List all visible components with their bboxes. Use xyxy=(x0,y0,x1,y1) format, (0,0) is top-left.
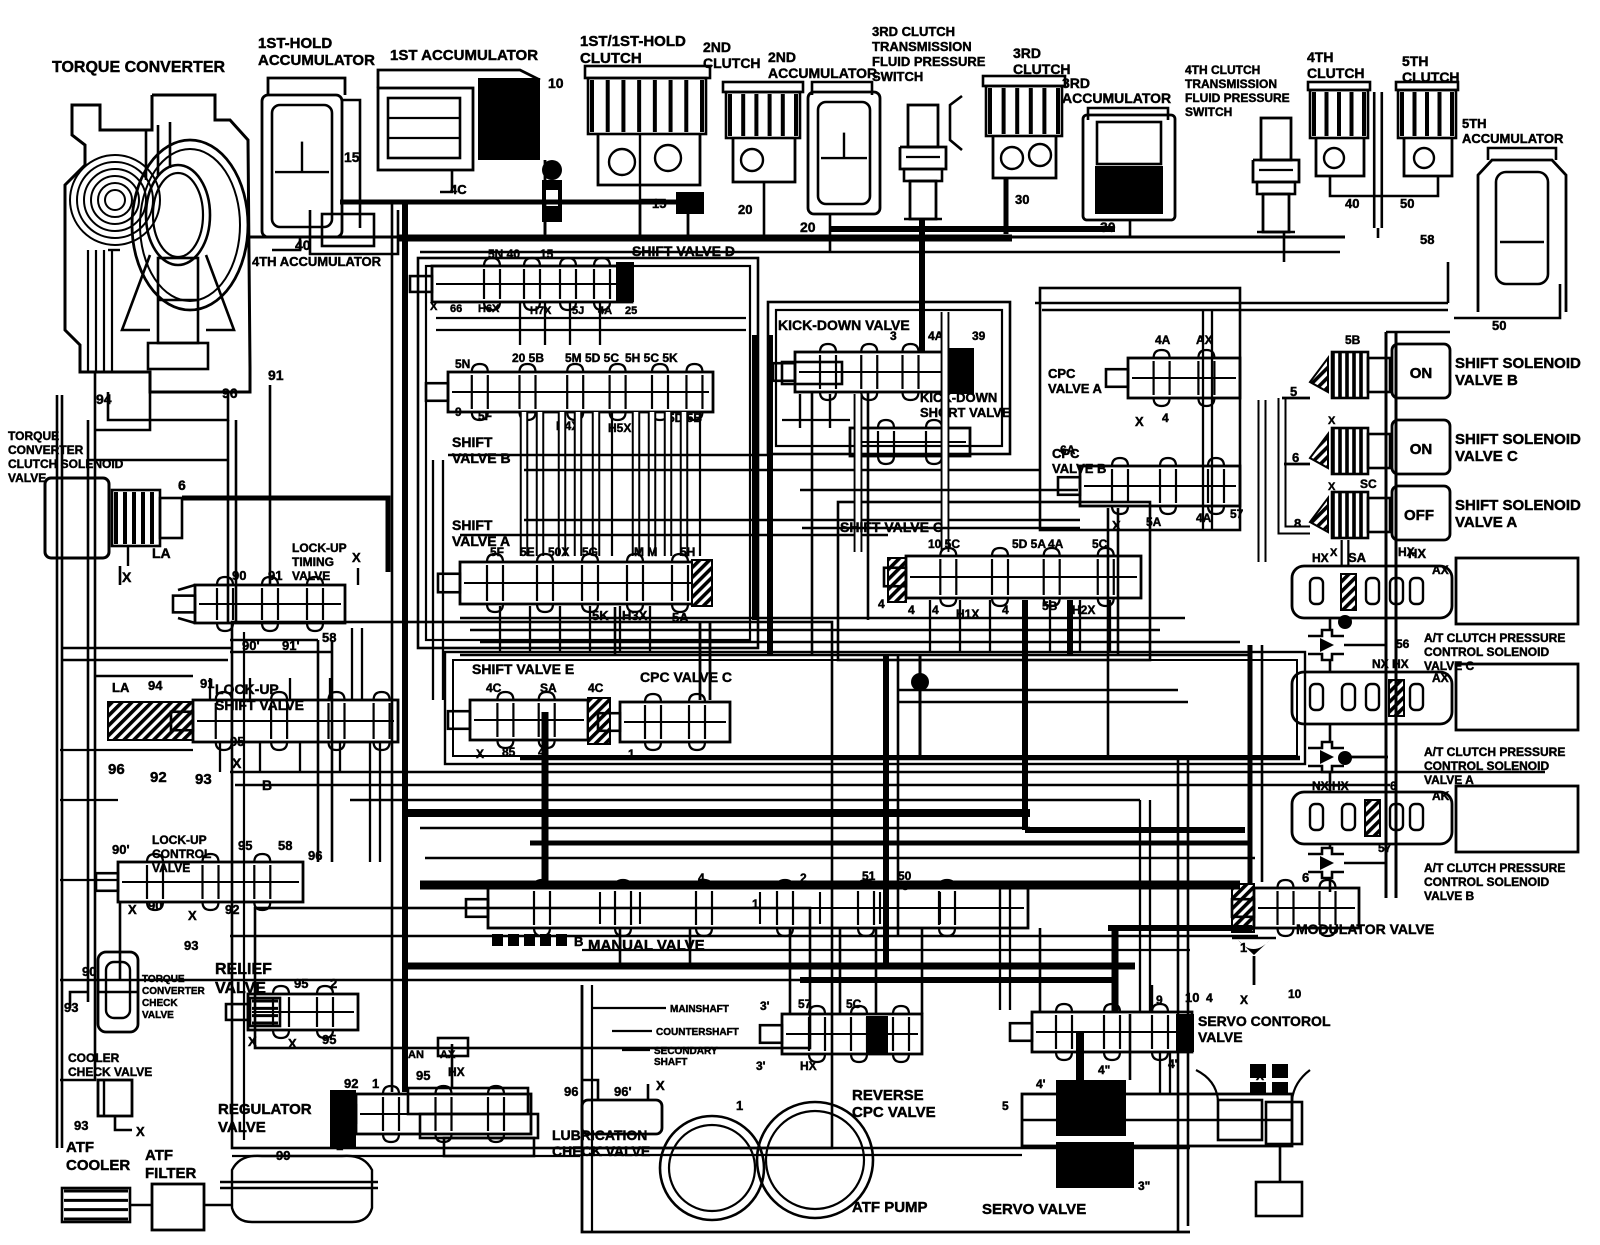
svg-text:20: 20 xyxy=(738,202,752,217)
svg-text:94: 94 xyxy=(148,678,163,693)
svg-text:SHIFT VALVE E: SHIFT VALVE E xyxy=(472,661,574,677)
svg-text:ATF: ATF xyxy=(66,1139,94,1156)
svg-text:TRANSMISSION: TRANSMISSION xyxy=(1185,77,1277,91)
svg-text:4TH CLUTCH: 4TH CLUTCH xyxy=(1185,63,1260,77)
svg-text:5: 5 xyxy=(1002,1099,1009,1113)
svg-text:SHIFT SOLENOID: SHIFT SOLENOID xyxy=(1455,355,1581,372)
svg-text:2: 2 xyxy=(330,976,337,991)
svg-text:X: X xyxy=(476,747,484,761)
svg-text:4C: 4C xyxy=(450,182,467,197)
svg-text:CONTROL SOLENOID: CONTROL SOLENOID xyxy=(1424,875,1549,889)
svg-text:HX: HX xyxy=(800,1059,817,1073)
svg-text:93: 93 xyxy=(74,1118,88,1133)
svg-text:VALVE: VALVE xyxy=(292,569,330,583)
svg-text:ON: ON xyxy=(1410,441,1433,458)
svg-text:39: 39 xyxy=(972,329,986,343)
svg-text:VALVE B: VALVE B xyxy=(1424,889,1475,903)
svg-text:SHIFT: SHIFT xyxy=(452,434,493,450)
svg-text:5C: 5C xyxy=(846,997,862,1011)
svg-text:AX: AX xyxy=(440,1049,456,1061)
svg-text:AN: AN xyxy=(408,1049,424,1061)
svg-text:SHIFT: SHIFT xyxy=(452,517,493,533)
svg-text:M M: M M xyxy=(634,545,657,559)
svg-text:4: 4 xyxy=(932,603,939,617)
svg-text:95: 95 xyxy=(294,976,308,991)
svg-text:1ST ACCUMULATOR: 1ST ACCUMULATOR xyxy=(390,47,538,64)
svg-text:CHECK VALVE: CHECK VALVE xyxy=(552,1143,650,1159)
svg-text:96: 96 xyxy=(222,385,238,401)
svg-text:94: 94 xyxy=(96,391,112,407)
svg-text:96: 96 xyxy=(308,848,322,863)
svg-text:X: X xyxy=(128,902,137,917)
svg-text:TORQUE CONVERTER: TORQUE CONVERTER xyxy=(52,59,226,76)
svg-text:56: 56 xyxy=(1396,637,1410,651)
svg-text:CLUTCH: CLUTCH xyxy=(580,50,642,67)
svg-text:4: 4 xyxy=(1206,991,1213,1005)
svg-text:NX HX: NX HX xyxy=(1372,657,1409,671)
svg-text:25: 25 xyxy=(625,305,637,317)
svg-text:50: 50 xyxy=(1492,318,1506,333)
svg-text:5M 5D 5C: 5M 5D 5C xyxy=(565,351,619,365)
svg-text:10: 10 xyxy=(548,75,564,91)
svg-text:X: X xyxy=(1328,415,1336,427)
svg-text:5D 5A: 5D 5A xyxy=(1012,537,1046,551)
svg-text:H2X: H2X xyxy=(1072,603,1095,617)
svg-text:CONTROL SOLENOID: CONTROL SOLENOID xyxy=(1424,645,1549,659)
svg-text:3: 3 xyxy=(902,879,909,893)
svg-text:CONVERTER: CONVERTER xyxy=(8,443,84,457)
svg-text:X: X xyxy=(352,550,361,565)
svg-text:SWITCH: SWITCH xyxy=(872,69,923,84)
svg-text:5J: 5J xyxy=(572,305,584,317)
svg-text:SHIFT VALVE D: SHIFT VALVE D xyxy=(632,243,735,259)
svg-text:58: 58 xyxy=(278,838,292,853)
svg-text:LA: LA xyxy=(152,545,171,561)
svg-text:15: 15 xyxy=(344,149,360,165)
svg-text:4: 4 xyxy=(1002,603,1009,617)
svg-text:VALVE B: VALVE B xyxy=(452,450,511,466)
svg-text:90: 90 xyxy=(82,964,96,979)
svg-text:4A: 4A xyxy=(1155,333,1171,347)
svg-text:10: 10 xyxy=(1185,990,1199,1005)
svg-text:X: X xyxy=(188,908,197,923)
svg-text:1: 1 xyxy=(736,1098,743,1113)
svg-text:96: 96 xyxy=(108,761,125,778)
svg-text:REGULATOR: REGULATOR xyxy=(218,1101,312,1118)
svg-text:SHIFT SOLENOID: SHIFT SOLENOID xyxy=(1455,431,1581,448)
svg-text:51: 51 xyxy=(862,869,876,883)
svg-text:CHECK VALVE: CHECK VALVE xyxy=(68,1065,152,1079)
svg-text:ATF PUMP: ATF PUMP xyxy=(852,1199,928,1216)
svg-text:91: 91 xyxy=(268,568,282,583)
svg-text:CLUTCH: CLUTCH xyxy=(703,55,761,71)
svg-text:4: 4 xyxy=(698,871,705,885)
svg-text:CPC VALVE: CPC VALVE xyxy=(852,1104,936,1121)
svg-text:COUNTERSHAFT: COUNTERSHAFT xyxy=(656,1027,739,1038)
svg-text:SA: SA xyxy=(1348,550,1367,565)
svg-text:3": 3" xyxy=(1138,1179,1150,1193)
svg-text:95: 95 xyxy=(322,1032,336,1047)
svg-text:FLUID PRESSURE: FLUID PRESSURE xyxy=(872,54,986,69)
svg-text:1: 1 xyxy=(372,1076,379,1091)
svg-text:HX: HX xyxy=(1398,545,1415,559)
svg-text:5TH: 5TH xyxy=(1462,116,1487,131)
svg-text:9: 9 xyxy=(1156,993,1163,1007)
svg-text:40: 40 xyxy=(1345,196,1359,211)
svg-text:4: 4 xyxy=(908,603,915,617)
svg-text:A/T CLUTCH PRESSURE: A/T CLUTCH PRESSURE xyxy=(1424,861,1565,875)
svg-text:5B: 5B xyxy=(1345,333,1361,347)
svg-text:6A: 6A xyxy=(1060,443,1076,457)
svg-text:4C: 4C xyxy=(588,681,604,695)
svg-text:B: B xyxy=(574,934,583,949)
svg-text:TORQUE: TORQUE xyxy=(142,974,185,985)
svg-text:SERVO CONTOROL: SERVO CONTOROL xyxy=(1198,1013,1331,1029)
svg-text:X: X xyxy=(430,301,438,313)
svg-text:4: 4 xyxy=(1162,411,1169,425)
svg-text:2: 2 xyxy=(800,871,807,885)
svg-text:3: 3 xyxy=(890,329,897,343)
svg-text:A/T CLUTCH PRESSURE: A/T CLUTCH PRESSURE xyxy=(1424,745,1565,759)
svg-text:X: X xyxy=(232,755,242,771)
svg-text:AX: AX xyxy=(1196,333,1213,347)
svg-text:5TH: 5TH xyxy=(1402,53,1428,69)
svg-text:VALVE: VALVE xyxy=(142,1010,174,1021)
svg-text:ACCUMULATOR: ACCUMULATOR xyxy=(258,52,375,69)
svg-text:HX: HX xyxy=(1312,551,1329,565)
svg-text:SECONDARY: SECONDARY xyxy=(654,1046,718,1057)
svg-text:96': 96' xyxy=(614,1084,632,1099)
svg-text:X: X xyxy=(248,1034,257,1049)
svg-text:VALVE: VALVE xyxy=(1198,1029,1243,1045)
svg-text:91: 91 xyxy=(268,367,284,383)
svg-text:ACCUMULATOR: ACCUMULATOR xyxy=(768,65,877,81)
svg-text:H7X: H7X xyxy=(530,305,552,317)
svg-text:1ST-HOLD: 1ST-HOLD xyxy=(258,35,332,52)
svg-text:CONVERTER: CONVERTER xyxy=(142,986,206,997)
svg-text:TORQUE: TORQUE xyxy=(8,429,59,443)
svg-text:X: X xyxy=(1112,518,1121,533)
svg-text:TRANSMISSION: TRANSMISSION xyxy=(872,39,972,54)
svg-text:RELIEF: RELIEF xyxy=(215,961,272,978)
svg-text:VALVE: VALVE xyxy=(218,1119,266,1136)
svg-text:AX: AX xyxy=(1432,671,1449,685)
svg-text:6: 6 xyxy=(178,477,186,493)
svg-text:5N: 5N xyxy=(455,357,470,371)
svg-text:ACCUMULATOR: ACCUMULATOR xyxy=(1462,131,1564,146)
svg-text:93: 93 xyxy=(195,771,212,788)
svg-text:5F: 5F xyxy=(478,409,492,423)
svg-text:FILTER: FILTER xyxy=(145,1165,197,1182)
svg-text:ACCUMULATOR: ACCUMULATOR xyxy=(1062,90,1171,106)
svg-text:SHIFT SOLENOID: SHIFT SOLENOID xyxy=(1455,497,1581,514)
svg-text:LA: LA xyxy=(112,680,130,695)
svg-text:90': 90' xyxy=(112,842,130,857)
svg-text:3': 3' xyxy=(760,999,770,1013)
svg-text:SWITCH: SWITCH xyxy=(1185,105,1232,119)
svg-text:1: 1 xyxy=(336,1138,343,1153)
svg-text:57: 57 xyxy=(1230,507,1244,521)
svg-text:4: 4 xyxy=(878,597,885,611)
svg-text:15: 15 xyxy=(540,247,554,261)
svg-text:9: 9 xyxy=(455,405,462,419)
svg-text:TIMING: TIMING xyxy=(292,555,334,569)
svg-text:SHIFT VALVE C: SHIFT VALVE C xyxy=(840,519,943,535)
svg-text:57: 57 xyxy=(798,997,812,1011)
svg-text:CLUTCH: CLUTCH xyxy=(1307,65,1365,81)
svg-text:ATF: ATF xyxy=(145,1147,173,1164)
svg-text:COOLER: COOLER xyxy=(66,1157,130,1174)
svg-text:93: 93 xyxy=(184,938,198,953)
svg-text:OFF: OFF xyxy=(1404,507,1434,524)
svg-text:4TH ACCUMULATOR: 4TH ACCUMULATOR xyxy=(252,254,382,269)
svg-text:LOCK-UP: LOCK-UP xyxy=(215,681,279,697)
svg-text:5E: 5E xyxy=(520,545,535,559)
svg-text:95: 95 xyxy=(238,838,252,853)
svg-text:4TH: 4TH xyxy=(1307,49,1333,65)
svg-text:SC: SC xyxy=(1360,477,1377,491)
svg-text:5H 5C 5K: 5H 5C 5K xyxy=(625,351,678,365)
svg-text:KICK-DOWN: KICK-DOWN xyxy=(920,390,997,405)
svg-text:58: 58 xyxy=(322,630,336,645)
svg-text:X: X xyxy=(136,1124,145,1139)
svg-text:92: 92 xyxy=(344,1076,358,1091)
svg-text:CPC: CPC xyxy=(1048,366,1076,381)
svg-text:LOCK-UP: LOCK-UP xyxy=(292,541,347,555)
svg-text:96: 96 xyxy=(564,1084,578,1099)
svg-text:X: X xyxy=(656,1078,665,1093)
svg-text:SHAFT: SHAFT xyxy=(654,1057,687,1068)
svg-text:H6X: H6X xyxy=(478,303,500,315)
svg-text:AX: AX xyxy=(1432,563,1449,577)
svg-text:58: 58 xyxy=(1420,232,1434,247)
svg-text:90: 90 xyxy=(232,568,246,583)
svg-text:20 5B: 20 5B xyxy=(512,351,544,365)
svg-text:5A: 5A xyxy=(1146,515,1162,529)
svg-text:VALVE: VALVE xyxy=(8,471,46,485)
svg-text:X: X xyxy=(1328,481,1336,493)
svg-text:MANUAL VALVE: MANUAL VALVE xyxy=(588,937,705,954)
svg-text:10: 10 xyxy=(1288,987,1302,1001)
svg-text:LOCK-UP: LOCK-UP xyxy=(152,833,207,847)
svg-text:30: 30 xyxy=(1015,192,1029,207)
svg-text:2ND: 2ND xyxy=(768,49,796,65)
svg-text:X: X xyxy=(122,569,132,585)
svg-text:66: 66 xyxy=(450,303,462,315)
svg-text:1: 1 xyxy=(752,897,759,911)
svg-text:92: 92 xyxy=(150,769,167,786)
svg-text:95: 95 xyxy=(416,1068,430,1083)
svg-text:REVERSE: REVERSE xyxy=(852,1087,924,1104)
svg-text:CPC VALVE C: CPC VALVE C xyxy=(640,669,732,685)
svg-text:2ND: 2ND xyxy=(703,39,731,55)
svg-text:A/T CLUTCH PRESSURE: A/T CLUTCH PRESSURE xyxy=(1424,631,1565,645)
svg-text:3RD: 3RD xyxy=(1013,45,1041,61)
svg-text:3': 3' xyxy=(756,1059,766,1073)
svg-text:VALVE C: VALVE C xyxy=(1455,448,1518,465)
svg-text:85: 85 xyxy=(502,745,516,759)
svg-text:X: X xyxy=(1135,414,1144,429)
svg-text:VALVE B: VALVE B xyxy=(1455,372,1518,389)
svg-text:90: 90 xyxy=(148,898,162,913)
svg-text:VALVE A: VALVE A xyxy=(1455,514,1517,531)
svg-text:4": 4" xyxy=(1098,1063,1110,1077)
svg-text:CHECK: CHECK xyxy=(142,998,178,1009)
svg-text:X: X xyxy=(1330,547,1338,559)
svg-text:4A: 4A xyxy=(1196,511,1212,525)
svg-text:AK: AK xyxy=(1432,789,1450,803)
svg-text:50: 50 xyxy=(1400,196,1414,211)
svg-text:ON: ON xyxy=(1410,365,1433,382)
svg-text:3RD CLUTCH: 3RD CLUTCH xyxy=(872,24,955,39)
svg-text:VALVE A: VALVE A xyxy=(1048,381,1103,396)
svg-text:X: X xyxy=(1240,993,1248,1007)
svg-text:20: 20 xyxy=(800,219,816,235)
svg-text:FLUID PRESSURE: FLUID PRESSURE xyxy=(1185,91,1290,105)
svg-text:SERVO VALVE: SERVO VALVE xyxy=(982,1201,1086,1218)
svg-text:6: 6 xyxy=(1302,870,1309,885)
svg-text:91: 91 xyxy=(200,676,214,691)
svg-text:SHORT VALVE: SHORT VALVE xyxy=(920,405,1011,420)
svg-text:4': 4' xyxy=(1036,1077,1046,1091)
svg-text:MAINSHAFT: MAINSHAFT xyxy=(670,1004,729,1015)
svg-text:HX: HX xyxy=(448,1065,465,1079)
svg-text:X: X xyxy=(288,1036,297,1051)
svg-text:1ST/1ST-HOLD: 1ST/1ST-HOLD xyxy=(580,33,686,50)
